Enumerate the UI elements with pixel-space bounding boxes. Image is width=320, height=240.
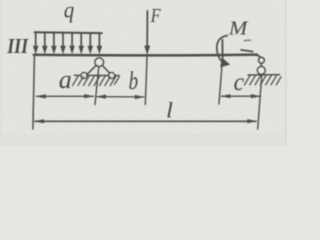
- svg-text:l: l: [166, 97, 173, 122]
- beam end step to right support: [256, 55, 261, 58]
- distributed load q : top line: [35, 31, 102, 34]
- dimension c line: [222, 95, 261, 97]
- svg-text:M: M: [228, 18, 249, 40]
- left page-edge shadow: [0, 0, 2, 146]
- distributed load arrows: [36, 33, 100, 48]
- dash 1 after M: [244, 39, 251, 42]
- svg-text:c: c: [234, 69, 245, 96]
- arrow b left: [96, 95, 106, 99]
- arrow c right: [251, 94, 261, 98]
- svg-text:a: a: [59, 65, 72, 94]
- svg-text:b: b: [129, 68, 139, 95]
- extension line right (x=262): [258, 75, 262, 129]
- beam: [34, 53, 257, 56]
- apex hinge circle: [95, 58, 104, 67]
- right page-edge shadow: [285, 0, 288, 146]
- arrow b right: [135, 95, 145, 99]
- extension line left (x=34): [33, 57, 35, 130]
- ground hatching right support: [245, 76, 282, 85]
- moment application tick: [221, 40, 223, 62]
- top hinge circle: [259, 57, 265, 63]
- arrow l right: [247, 119, 257, 123]
- arrow a left: [35, 94, 46, 98]
- dimension l line: [35, 120, 256, 122]
- distributed load arrowheads: [33, 46, 102, 55]
- dimension a line: [37, 95, 94, 97]
- ground line right support: [248, 74, 280, 76]
- arrow l left: [34, 119, 44, 123]
- moment M arc arrow: [217, 36, 227, 62]
- extension line under moment: [219, 62, 222, 104]
- link rod: [260, 63, 262, 66]
- bottom scan shading: [0, 134, 287, 146]
- svg-text:III: III: [6, 34, 29, 58]
- svg-text:F: F: [150, 5, 161, 27]
- svg-text:q: q: [64, 0, 75, 23]
- roller circles: [81, 73, 87, 79]
- paper background: [0, 0, 287, 146]
- support centre extension line: [95, 66, 99, 104]
- force F arrow: [146, 11, 148, 47]
- arrow a right: [84, 94, 94, 98]
- left leg: [88, 65, 97, 74]
- platform line: [75, 74, 120, 76]
- extension line under F: [145, 57, 147, 105]
- ground hatching left support: [73, 77, 120, 86]
- dash 2 after M: [241, 50, 253, 52]
- bottom hinge circle: [257, 67, 265, 75]
- dimension b line: [97, 96, 145, 98]
- right leg: [102, 65, 110, 74]
- arrow c left: [220, 94, 230, 98]
